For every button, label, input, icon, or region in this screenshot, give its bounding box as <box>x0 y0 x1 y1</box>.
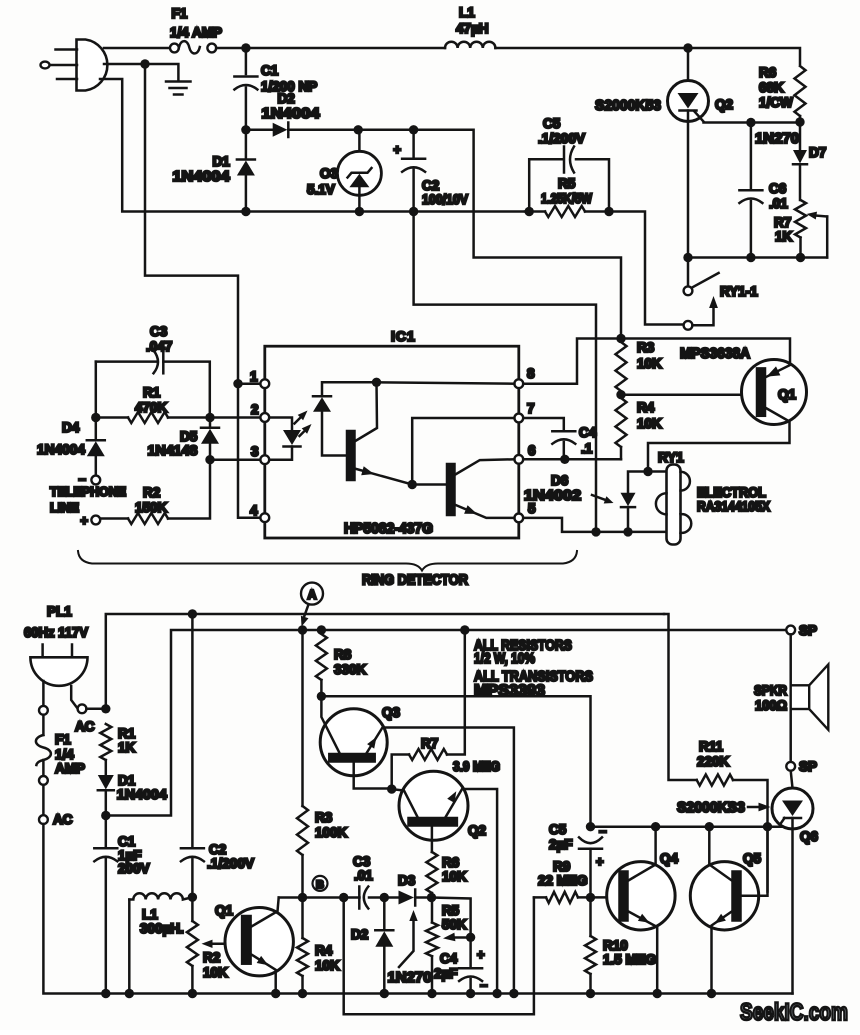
transistor Q4 <box>607 831 675 989</box>
svg-text:Q2: Q2 <box>715 97 733 112</box>
wire Q5 base riser <box>766 831 769 891</box>
wire pin1 line <box>238 382 260 385</box>
wire D6 branch <box>628 472 648 493</box>
svg-text:1/4: 1/4 <box>55 747 74 762</box>
label R5 50K <box>442 917 467 932</box>
junction Q2 cathode rail <box>683 253 692 262</box>
wire pin8 to R3 rail <box>523 339 621 384</box>
label 100ohm <box>755 698 787 713</box>
label AC upper <box>75 719 95 734</box>
label R5 amp <box>442 903 460 918</box>
svg-text:470K: 470K <box>135 400 168 415</box>
label MPS3638A <box>680 346 750 362</box>
wire relay top lead <box>648 470 667 473</box>
label PL1 <box>47 604 72 619</box>
junction R6 bottom / R5 top <box>427 893 436 902</box>
svg-text:RY1-1: RY1-1 <box>720 284 758 299</box>
svg-text:SPKR: SPKR <box>754 683 787 698</box>
junction C2 top rail <box>188 609 197 618</box>
svg-text:330K: 330K <box>334 662 367 677</box>
junction C2 bottom <box>409 207 418 216</box>
label R6 <box>759 65 777 80</box>
junction gnd Q5e <box>707 989 716 998</box>
fuse F1 (1/4 AMP) <box>170 41 216 53</box>
label 22 MEG <box>538 873 588 888</box>
label AC lower <box>53 812 73 827</box>
svg-text:100K: 100K <box>315 825 348 840</box>
label 1.5 MEG <box>603 952 656 967</box>
junction D2 top <box>380 893 389 902</box>
svg-text:R3: R3 <box>637 340 655 355</box>
resistor R6 68K 1/CW <box>795 66 806 116</box>
junction gnd C1 <box>101 989 110 998</box>
label RA3144105X <box>697 499 770 514</box>
svg-text:10K: 10K <box>637 356 662 371</box>
resistor R8 330K <box>316 634 327 692</box>
label Q1 amp <box>215 903 234 918</box>
pin 6 <box>514 443 536 464</box>
label C4 2uF <box>434 966 458 981</box>
svg-text:100/10V: 100/10V <box>422 192 468 207</box>
wire plug to fuse F1 <box>104 47 170 50</box>
diode D4 1N4004 <box>87 421 105 476</box>
label 1/CW <box>759 95 793 110</box>
terminal AC lower <box>39 815 48 824</box>
label LINE <box>50 501 79 515</box>
junction R3/R4 at B line <box>298 893 307 902</box>
resistor R4 10K (amp) <box>297 902 308 990</box>
wire R6 bottom <box>799 116 802 122</box>
svg-text:3.9 MEG: 3.9 MEG <box>453 759 500 774</box>
label R4 amp <box>315 943 333 958</box>
svg-text:.01: .01 <box>769 196 788 211</box>
svg-text:R1: R1 <box>118 726 136 741</box>
relay RY1 coil <box>656 465 691 545</box>
resistor R3 100K (amp) <box>297 806 308 898</box>
relay contact RY1-1 <box>684 258 719 330</box>
svg-text:D2: D2 <box>351 927 368 942</box>
label D1 amp 1N4004 <box>117 786 167 802</box>
label plus C2 <box>393 142 401 157</box>
svg-text:1N270: 1N270 <box>755 131 799 147</box>
inductor L1 47uH <box>445 42 495 48</box>
svg-text:B: B <box>316 879 324 891</box>
label C4 amp <box>440 951 458 966</box>
junction Q2 anode <box>683 43 692 52</box>
label RY1 <box>658 450 684 465</box>
svg-text:R6: R6 <box>442 855 460 870</box>
pin 7 <box>514 401 534 422</box>
svg-text:68K: 68K <box>759 80 784 95</box>
wire fuse to C1 junction <box>216 47 445 50</box>
wire R8 bottom to C5 riser <box>321 696 590 822</box>
svg-text:Q1: Q1 <box>215 903 234 918</box>
junction R6 bottom / D7 top <box>795 117 804 126</box>
label C4 minus <box>480 978 488 993</box>
label R6 amp <box>442 855 460 870</box>
svg-text:R3: R3 <box>315 810 333 825</box>
label 68K <box>759 80 784 95</box>
wire R3 rail to Q1 emitter <box>621 339 790 366</box>
svg-text:4: 4 <box>250 503 258 518</box>
svg-text:1N4002: 1N4002 <box>524 488 581 504</box>
label MPS3393 <box>474 683 545 700</box>
svg-text:R4: R4 <box>315 943 333 958</box>
junction D1 bottom <box>241 207 250 216</box>
capacitor C2 .1/200V (amp) <box>181 614 204 897</box>
pin 3 <box>251 444 269 464</box>
svg-text:Q5: Q5 <box>743 851 762 866</box>
wire C2 top to cathode rail <box>414 130 621 334</box>
wire C2-bottom to relay ground <box>414 212 596 532</box>
wire pin5 line <box>523 518 666 532</box>
svg-text:10K: 10K <box>442 869 467 884</box>
svg-text:.047: .047 <box>146 339 172 354</box>
label D2 1N4004 <box>262 106 320 122</box>
junction gnd L1 <box>125 989 134 998</box>
svg-text:R9: R9 <box>553 859 570 874</box>
svg-text:AC: AC <box>53 812 73 827</box>
label R5 1.25K/5W <box>541 191 592 206</box>
svg-text:R1: R1 <box>143 385 161 400</box>
transistor Q3 <box>320 696 514 989</box>
wire rail to R7 right <box>447 630 465 755</box>
svg-text:1K: 1K <box>118 740 136 755</box>
label SPKR <box>754 683 787 698</box>
svg-text:1N270: 1N270 <box>388 969 432 986</box>
svg-text:8: 8 <box>527 366 535 381</box>
svg-text:1K: 1K <box>775 229 793 244</box>
wire SP to speaker <box>789 634 792 762</box>
label C3 tele <box>150 324 168 339</box>
svg-text:MPS3393: MPS3393 <box>474 683 545 700</box>
label D7 <box>809 145 826 160</box>
label R6 10K <box>442 869 467 884</box>
potentiometer R7 1K <box>795 200 806 258</box>
svg-text:7: 7 <box>527 401 535 416</box>
label D1 <box>213 154 231 169</box>
svg-text:R4: R4 <box>637 400 655 415</box>
svg-text:Q6: Q6 <box>800 829 819 844</box>
label 1N270 amp <box>388 969 432 986</box>
capacitor C5 .1/200V (top) <box>529 147 609 212</box>
svg-text:R2: R2 <box>143 485 160 500</box>
transistor Q5 <box>690 831 767 989</box>
svg-text:L1: L1 <box>142 907 158 922</box>
svg-text:IC1: IC1 <box>391 328 416 344</box>
svg-text:SP: SP <box>799 623 817 638</box>
terminal SP upper <box>786 623 817 638</box>
junction R5 right <box>604 207 613 216</box>
label AMP <box>55 761 85 776</box>
junction gnd R10 <box>586 989 595 998</box>
label R1 tele <box>143 385 161 400</box>
node B circle <box>313 876 328 891</box>
svg-text:R8: R8 <box>334 647 352 662</box>
label R4 ring 10K <box>637 416 662 431</box>
capacitor C3 .047 (tele) <box>96 350 210 413</box>
node A circle <box>301 583 323 605</box>
junction rail riser R7 (amp) <box>460 625 469 634</box>
junction plug-middle wire <box>140 59 149 68</box>
svg-text:R11: R11 <box>699 739 724 754</box>
junction gnd Q4e <box>653 989 662 998</box>
svg-text:2: 2 <box>251 402 259 417</box>
junction R8 bottom / Q3 collector <box>317 692 326 701</box>
label R7 1K <box>775 229 793 244</box>
svg-text:−: − <box>480 978 488 993</box>
watermark SeekIC.com <box>740 999 848 1026</box>
R7 wiper arrow <box>807 212 828 258</box>
label D6 <box>551 473 569 488</box>
capacitor C6 .01 <box>739 123 762 258</box>
inductor L1 300uH (amp) <box>129 893 192 989</box>
svg-text:10K: 10K <box>637 416 662 431</box>
capacitor C1 1uF 200V <box>94 820 117 990</box>
pin 1 <box>250 369 269 388</box>
svg-text:D3: D3 <box>398 873 416 888</box>
label O3 <box>320 166 339 181</box>
pin 2 <box>251 402 269 422</box>
arrow node A pointer <box>301 605 309 627</box>
label D1 1N4004 <box>173 169 230 185</box>
label L1 amp <box>142 907 158 922</box>
label C1 <box>261 63 279 78</box>
label 200V <box>118 861 150 876</box>
resistor R11 220K <box>697 775 733 786</box>
svg-text:AC: AC <box>75 719 95 734</box>
terminal plus (telephone line) <box>80 513 100 528</box>
wire top rail to R11 <box>664 614 697 780</box>
svg-text:50K: 50K <box>442 917 467 932</box>
label 300uH <box>140 921 184 936</box>
label R5 <box>558 176 576 191</box>
junction Q3 base / R7 / Q2 collector <box>387 784 396 793</box>
svg-text:Q4: Q4 <box>660 851 679 866</box>
wire plug middle to ground <box>104 64 178 80</box>
label D1 amp <box>118 773 136 788</box>
wire AC to R1 junction <box>86 708 105 711</box>
svg-text:TELEPHONE: TELEPHONE <box>50 485 126 499</box>
capacitor C4 2uF (amp) <box>459 937 482 989</box>
wire Q2 gate line <box>704 121 801 124</box>
svg-text:C5: C5 <box>543 116 561 131</box>
label R1 1K <box>118 740 136 755</box>
label 1/2 W, 10% <box>474 651 535 667</box>
label C5 2uF <box>549 837 573 852</box>
capacitor C2 100/10V (electrolytic) <box>402 134 425 208</box>
label C4 ring <box>579 425 597 440</box>
resistor R9 22 MEG <box>534 892 616 903</box>
label R3 ring <box>637 340 655 355</box>
wire R1 junction up to top rail <box>106 614 664 709</box>
svg-text:1/4 AMP: 1/4 AMP <box>170 25 222 40</box>
junction C4 bottom <box>560 455 569 464</box>
pin 8 <box>514 366 535 388</box>
junction pin1 feeder <box>233 379 242 388</box>
label C5 plus <box>596 854 604 869</box>
svg-text:Q2: Q2 <box>468 823 486 838</box>
label C6 .01 <box>769 196 788 211</box>
wire O3 top to C2 top <box>358 129 413 132</box>
svg-text:C2: C2 <box>209 842 226 857</box>
label L1 <box>459 5 475 20</box>
label D4 1N4004 <box>37 441 85 457</box>
svg-text:SeekIC.com: SeekIC.com <box>740 999 848 1026</box>
junction R5 wiper / C4 top <box>466 933 475 942</box>
label D2 <box>278 91 295 106</box>
svg-text:C3: C3 <box>353 854 371 869</box>
junction R1 top (bottom section) <box>101 704 110 713</box>
junction IC internal top <box>372 378 381 387</box>
svg-text:C1: C1 <box>118 834 136 849</box>
junction R3/R4 (Q1 base) <box>616 390 625 399</box>
label R8 <box>334 647 352 662</box>
wire C3 left down <box>95 362 98 414</box>
junction O3 top <box>354 125 363 134</box>
svg-text:D6: D6 <box>551 473 569 488</box>
junction Q5 collector <box>705 822 714 831</box>
zener diode O3 5.1V (in circle) <box>337 130 381 212</box>
SCR Q2 S2000K53 (in circle) <box>668 48 709 122</box>
transistor T2 inside IC1 <box>412 459 514 518</box>
junction node A on rail <box>298 625 307 634</box>
arrow S2000KS3 pointer <box>748 803 771 812</box>
junction C1 top <box>241 43 250 52</box>
label C3 .01 <box>354 868 373 883</box>
label 1/4 <box>55 747 74 762</box>
label Q1 ring <box>778 387 797 402</box>
svg-text:R2: R2 <box>203 950 220 965</box>
label R3 100K <box>315 825 348 840</box>
label 1N4002 <box>524 488 581 504</box>
label F1 bottom <box>55 732 71 747</box>
label D5 1N4148 <box>148 442 198 458</box>
label C1 amp <box>118 834 136 849</box>
arrow 1N270 pointer <box>399 910 418 967</box>
label C3 amp <box>353 854 371 869</box>
arrow D6 pointer <box>592 495 614 504</box>
svg-text:150K: 150K <box>135 500 168 515</box>
svg-text:1.5 MEG: 1.5 MEG <box>603 952 656 967</box>
label Q6 <box>800 829 819 844</box>
IC IC1 box (HP5082-4370 optocoupler) <box>265 346 519 538</box>
svg-text:AMP: AMP <box>55 761 85 776</box>
svg-text:RING DETECTOR: RING DETECTOR <box>362 573 468 589</box>
label 1/4 AMP <box>170 25 222 40</box>
brace (ring detector) <box>78 551 577 571</box>
junction Q4 collector <box>651 822 660 831</box>
svg-text:C1: C1 <box>261 63 279 78</box>
label C4 .1 <box>581 441 593 456</box>
svg-text:F1: F1 <box>172 6 188 21</box>
svg-text:C6: C6 <box>769 181 787 196</box>
junction R1 right / D5 / C3 <box>205 413 214 422</box>
wire pin7 internal <box>412 418 514 480</box>
resistor R4 10K (ring) <box>616 398 627 459</box>
svg-text:300µH.: 300µH. <box>140 921 184 936</box>
label R1 amp <box>118 726 136 741</box>
svg-text:S2000K53: S2000K53 <box>595 97 661 114</box>
junction R7 bottom <box>796 253 805 262</box>
junction R8 top <box>317 625 326 634</box>
svg-text:100Ω: 100Ω <box>755 698 787 713</box>
svg-text:+: + <box>393 142 401 157</box>
svg-text:R7: R7 <box>774 215 791 230</box>
wire L1 to Q2 anode junction <box>495 47 688 50</box>
wire plug bottom to left rail <box>100 79 242 212</box>
label F1 <box>172 6 188 21</box>
diode D2 1N270 (amp) <box>375 898 393 990</box>
svg-text:D2: D2 <box>278 91 295 106</box>
wire B line <box>279 896 432 899</box>
diode D7 1N270 <box>793 126 807 200</box>
label R7 amp <box>421 736 438 751</box>
svg-text:1/2 W, 10%: 1/2 W, 10% <box>474 651 535 667</box>
terminal minus (telephone line) <box>78 472 100 487</box>
pin 4 <box>250 503 269 522</box>
label RING DETECTOR <box>362 573 468 589</box>
svg-text:1N4004: 1N4004 <box>117 786 167 802</box>
svg-text:LINE: LINE <box>50 501 79 515</box>
potentiometer R5 50K <box>426 902 438 990</box>
junction D1 bottom / C1 <box>101 811 110 820</box>
junction R3 top <box>616 334 625 343</box>
resistor R6 10K (amp) <box>426 852 437 898</box>
capacitor C4 .1 (ring) <box>523 418 575 459</box>
wire collector rail <box>591 825 782 828</box>
capacitor C1 1/200 NP <box>234 52 257 126</box>
resistor R1 470K (tele) <box>99 412 206 423</box>
LED D-in (pins 2-3) inside IC1 <box>269 418 301 460</box>
wire Q1 base <box>621 393 743 396</box>
junction B feedback takeoff <box>339 893 348 902</box>
label C2 100/10V <box>422 192 468 207</box>
junction gnd R2 <box>188 989 197 998</box>
svg-text:.1/200V: .1/200V <box>207 856 254 871</box>
svg-text:220K: 220K <box>697 754 730 769</box>
label C5 top <box>543 116 561 131</box>
label IC1 <box>391 328 416 344</box>
label Q2 amp <box>468 823 486 838</box>
junction D6 bottom <box>623 527 632 536</box>
resistor R2 150K (tele) <box>100 464 210 524</box>
diode D1 1N4004 (vertical, top section) <box>237 134 255 208</box>
transistor Q1 (amp) <box>225 898 293 990</box>
svg-text:F1: F1 <box>55 732 71 747</box>
wire rail to R5 <box>525 210 529 213</box>
label R7 top <box>774 215 791 230</box>
wire pin4 feeder <box>238 388 260 518</box>
wire pin2 line <box>210 416 260 419</box>
label R2 amp <box>203 950 220 965</box>
svg-text:Q1: Q1 <box>778 387 797 402</box>
svg-text:2µF: 2µF <box>549 837 573 852</box>
svg-text:O3: O3 <box>320 166 339 181</box>
resistor R5 1.25K/5W <box>529 206 609 217</box>
junction C6 top <box>746 118 755 127</box>
resistor R7 3.9 MEG <box>392 749 447 785</box>
wire cathode bottom rail <box>688 256 827 259</box>
svg-text:D4: D4 <box>62 420 80 435</box>
light arrows (optocoupler) <box>295 411 312 437</box>
potentiometer R2 10K (amp) <box>187 897 198 989</box>
label ALL TRANSISTORS <box>474 668 593 685</box>
label D5 <box>180 429 198 444</box>
svg-text:R5: R5 <box>558 176 576 191</box>
label 1uF <box>118 848 142 863</box>
wire R5 to relay contact <box>609 212 683 325</box>
